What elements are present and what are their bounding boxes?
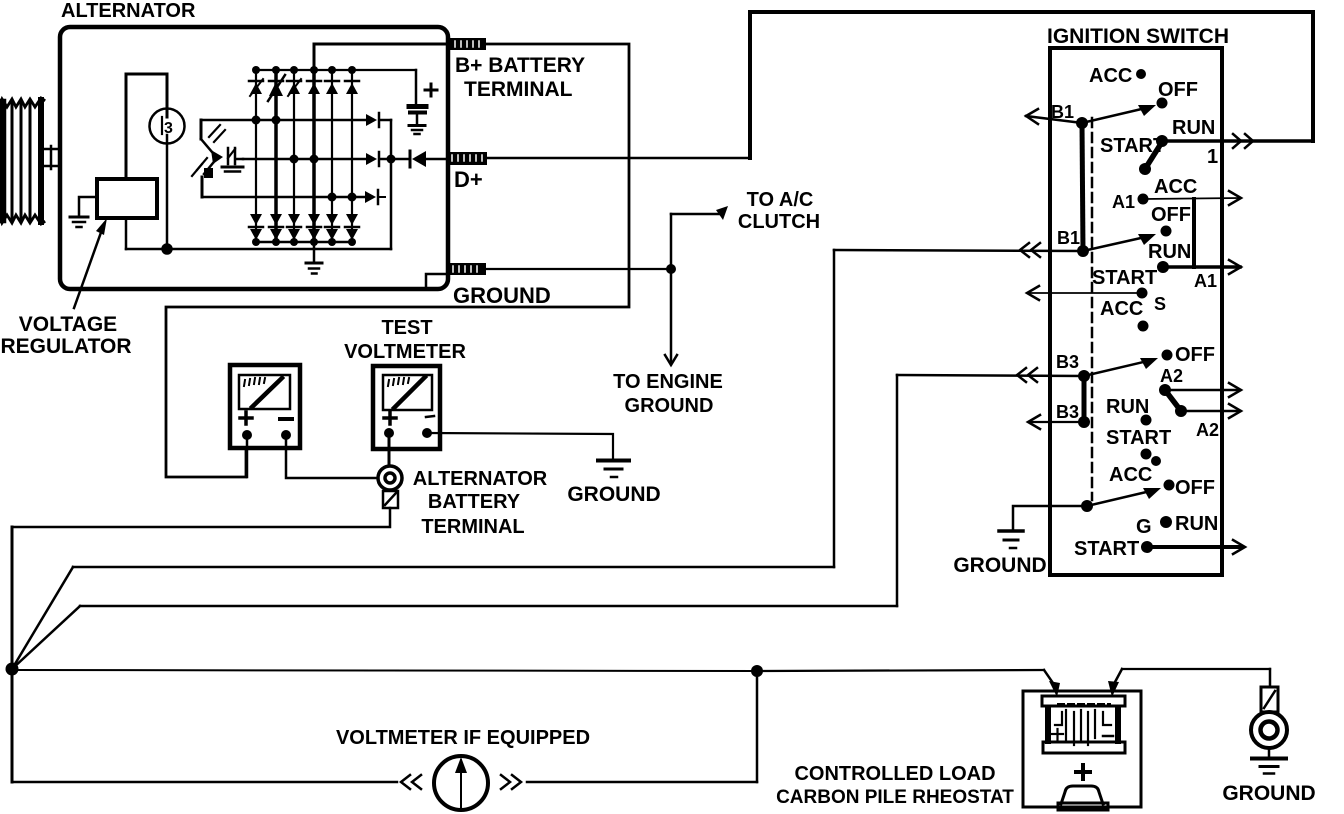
svg-text:START: START xyxy=(1074,538,1139,560)
voltmeter M2 case xyxy=(373,366,440,449)
wire M2 plus lead xyxy=(388,433,391,466)
svg-text:GROUND: GROUND xyxy=(953,554,1046,577)
svg-text:A2: A2 xyxy=(1196,420,1219,440)
ground (ignition switch) xyxy=(999,531,1023,548)
node: regulator/lamp junction xyxy=(163,245,172,254)
section1 wiper bar xyxy=(1145,142,1162,169)
regulator output wire to bus xyxy=(125,218,128,249)
wire D+ to ignition feed xyxy=(487,157,750,160)
voltmeter M1 terminals xyxy=(242,430,252,440)
svg-text:ACC: ACC xyxy=(1100,298,1143,320)
field winding loop wire xyxy=(126,74,167,179)
svg-text:OFF: OFF xyxy=(1175,344,1215,366)
output diode to D+ terminal xyxy=(391,151,446,167)
section3 wiper bar xyxy=(1165,390,1181,411)
svg-text:A1: A1 xyxy=(1112,192,1135,212)
wire M1 minus lead xyxy=(286,435,378,478)
node trio bus / D+ xyxy=(387,155,396,164)
stator winding column 4 xyxy=(312,70,316,241)
svg-text:ALTERNATOR: ALTERNATOR xyxy=(413,468,548,490)
svg-text:REGULATOR: REGULATOR xyxy=(0,335,131,358)
wire common to ground xyxy=(1013,506,1087,530)
alternator battery terminal connector xyxy=(378,466,402,508)
svg-text:ACC: ACC xyxy=(1109,464,1152,486)
bottom voltmeter loop wire right xyxy=(527,671,757,782)
voltmeter M3 (if equipped) xyxy=(434,756,488,810)
svg-text:A1: A1 xyxy=(1194,271,1217,291)
ground terminal case strap xyxy=(426,274,448,287)
wire junction to battery positive xyxy=(757,670,1060,697)
svg-text:ACC: ACC xyxy=(1089,65,1132,87)
pulley shaft xyxy=(44,146,60,169)
svg-text:B3: B3 xyxy=(1056,402,1079,422)
diode D1 xyxy=(249,79,263,96)
stator winding column 2 xyxy=(274,70,278,241)
svg-text:B1: B1 xyxy=(1057,228,1080,248)
svg-text:OFF: OFF xyxy=(1158,79,1198,101)
svg-text:TERMINAL: TERMINAL xyxy=(464,78,573,101)
wire B+ to left voltmeter plus xyxy=(166,44,629,477)
ground (test voltmeter) xyxy=(598,461,629,478)
svg-text:BATTERY: BATTERY xyxy=(428,491,521,513)
ground connector xyxy=(1251,669,1287,748)
pulley xyxy=(0,98,44,224)
chevrons out of voltmeter xyxy=(501,775,521,789)
battery BT1 xyxy=(1042,696,1125,753)
diode D6 xyxy=(345,81,359,94)
phase row 3 wire xyxy=(202,196,365,199)
wire to battery xyxy=(12,670,757,671)
section4 common xyxy=(1081,500,1093,512)
rectifier top bus wire xyxy=(256,69,416,71)
svg-text:B3: B3 xyxy=(1056,352,1079,372)
internal ground xyxy=(306,242,322,274)
svg-text:OFF: OFF xyxy=(1175,477,1215,499)
stator winding column 6 xyxy=(351,70,353,241)
voltage regulator callout arrow xyxy=(74,218,107,308)
trio diode DT3 xyxy=(365,190,385,204)
node voltmeter return xyxy=(751,665,763,677)
svg-text:TO A/C: TO A/C xyxy=(747,189,814,211)
trio diode DT2 xyxy=(366,152,391,166)
svg-text:RUN: RUN xyxy=(1148,241,1191,263)
phase row 2 wire (D+ row) xyxy=(243,158,366,161)
section1 wiper arrow xyxy=(1082,105,1156,123)
stator winding column 3 xyxy=(293,70,295,241)
trio bus vertical xyxy=(390,120,393,249)
svg-text:VOLTAGE: VOLTAGE xyxy=(19,313,117,336)
terminal D+ (hatched) xyxy=(446,152,487,165)
section4 OFF xyxy=(1164,480,1175,491)
svg-text:GROUND: GROUND xyxy=(625,395,714,417)
svg-text:TERMINAL: TERMINAL xyxy=(421,516,524,538)
svg-text:G: G xyxy=(1136,516,1152,538)
diode D10 xyxy=(307,214,321,240)
dashed divider xyxy=(1091,118,1094,500)
diode D3 xyxy=(287,79,301,96)
section2 wiper arrow xyxy=(1083,234,1156,251)
trio diode DT1 xyxy=(366,113,391,127)
svg-text:TO ENGINE: TO ENGINE xyxy=(613,371,723,393)
wire RUN to feed xyxy=(1162,139,1313,143)
terminal GROUND (hatched) xyxy=(447,263,486,275)
battery plus label xyxy=(1076,765,1090,779)
charge indicator lamp xyxy=(150,109,185,144)
B1 bus bar xyxy=(1082,123,1083,251)
wire B3 feed from harness xyxy=(897,375,1084,376)
svg-text:VOLTMETER: VOLTMETER xyxy=(344,341,466,363)
svg-text:ALTERNATOR: ALTERNATOR xyxy=(61,0,196,22)
wire ground terminal to node xyxy=(486,268,671,270)
B3 bus bar xyxy=(1082,376,1087,422)
voltmeter M1 polarity xyxy=(240,412,292,424)
rectifier bottom bus wire xyxy=(256,241,352,244)
section3 wiper arrow xyxy=(1084,358,1158,376)
svg-text:START: START xyxy=(1106,427,1171,449)
stator winding column 5 xyxy=(331,70,333,241)
svg-text:1: 1 xyxy=(1207,146,1218,168)
wire M1 plus lead xyxy=(246,435,249,477)
section2 S terminal xyxy=(1137,288,1148,299)
section1 RUN xyxy=(1156,135,1168,147)
ignition switch box xyxy=(1050,48,1222,575)
terminal B+ (hatched) xyxy=(449,38,486,50)
wire right connector to battery negative xyxy=(1108,669,1270,697)
diode D12 xyxy=(345,214,359,240)
voltmeter M2 display xyxy=(383,375,432,410)
svg-text:TEST: TEST xyxy=(381,317,432,339)
diode D7 xyxy=(249,214,263,240)
svg-text:GROUND: GROUND xyxy=(1222,782,1315,805)
voltmeter M1 display xyxy=(239,375,290,409)
section4 wiper arrow xyxy=(1087,488,1161,506)
section1 ACC dot xyxy=(1136,69,1146,79)
alternator case xyxy=(60,27,448,289)
zener diode Z1 xyxy=(222,148,243,172)
node dots top bus xyxy=(252,66,356,74)
regulator ground xyxy=(70,197,97,227)
A1 link bar xyxy=(1192,199,1196,267)
svg-text:RUN: RUN xyxy=(1172,117,1215,139)
svg-text:RUN: RUN xyxy=(1106,396,1149,418)
wire lamp to junction xyxy=(166,135,169,249)
diode D4 xyxy=(307,81,321,94)
voltage regulator box xyxy=(97,179,157,218)
wire top feed loop xyxy=(750,12,1313,158)
svg-text:VOLTMETER IF EQUIPPED: VOLTMETER IF EQUIPPED xyxy=(336,727,590,749)
wire to A/C clutch xyxy=(671,206,728,269)
voltmeter M2 terminals xyxy=(384,428,394,438)
wire to B1 feed xyxy=(12,250,834,669)
svg-text:IGNITION SWITCH: IGNITION SWITCH xyxy=(1047,25,1229,48)
wire to engine ground xyxy=(665,269,677,365)
bottom voltmeter loop wire left xyxy=(12,781,397,784)
section3 OFF xyxy=(1162,350,1173,361)
voltmeter M1 case xyxy=(230,365,300,448)
diode D2 xyxy=(268,75,285,101)
diode D9 xyxy=(287,214,301,240)
svg-text:S: S xyxy=(1154,294,1166,314)
svg-text:GROUND: GROUND xyxy=(567,483,660,506)
diode D5 xyxy=(325,81,339,94)
wire connector to bottom bus xyxy=(12,508,390,527)
transistor Q2 xyxy=(192,158,213,197)
stator winding column 1 xyxy=(255,70,257,241)
svg-text:B+ BATTERY: B+ BATTERY xyxy=(455,54,585,77)
svg-text:ACC: ACC xyxy=(1154,176,1197,198)
svg-text:RUN: RUN xyxy=(1175,513,1218,535)
chevrons into voltmeter xyxy=(401,775,421,789)
capacitor C1 xyxy=(409,70,437,134)
section1 OFF xyxy=(1157,98,1168,109)
transistor Q1 xyxy=(201,120,225,164)
carbon pile element xyxy=(1058,786,1108,810)
section1 exit arrow left xyxy=(1026,109,1082,124)
svg-text:CONTROLLED LOAD: CONTROLLED LOAD xyxy=(794,763,995,785)
voltmeter M2 polarity xyxy=(384,412,434,424)
ground (battery) xyxy=(1252,748,1286,774)
svg-text:OFF: OFF xyxy=(1151,204,1191,226)
wire to B3 feed xyxy=(12,375,897,669)
chevrons out right xyxy=(1233,134,1253,148)
svg-text:GROUND: GROUND xyxy=(453,283,551,308)
carbon pile rheostat enclosure xyxy=(1023,691,1141,807)
svg-text:CARBON PILE RHEOSTAT: CARBON PILE RHEOSTAT xyxy=(776,787,1014,808)
svg-text:CLUTCH: CLUTCH xyxy=(738,211,820,233)
diode D8 xyxy=(269,214,283,240)
svg-text:START: START xyxy=(1092,267,1157,289)
phase row 1 wire xyxy=(201,119,366,122)
svg-text:D+: D+ xyxy=(454,167,483,192)
wire M2 minus to ground xyxy=(427,433,613,459)
diode D11 xyxy=(325,214,339,240)
svg-text:A2: A2 xyxy=(1160,366,1183,386)
node main junction xyxy=(6,663,19,676)
wire B1 feed from harness xyxy=(834,250,1083,251)
B+ feed wire xyxy=(314,44,449,70)
svg-text:3: 3 xyxy=(164,120,173,137)
main distribution trunk xyxy=(11,527,14,782)
node ground junction xyxy=(666,264,676,274)
